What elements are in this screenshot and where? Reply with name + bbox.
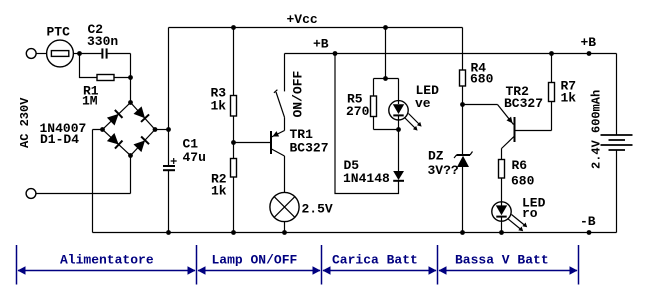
wire TR1 collector to lamp: [284, 156, 286, 192]
resistor R4: [460, 70, 466, 86]
svg-text:ve: ve: [415, 96, 431, 111]
wire R6 to LED ro: [501, 179, 503, 206]
junction bridge top: [128, 100, 133, 105]
svg-text:1M: 1M: [82, 94, 98, 109]
wire LED ro to bottom rail: [501, 218, 503, 233]
svg-text:2.5V: 2.5V: [302, 202, 333, 217]
battery BT1 2.4V: [601, 135, 633, 150]
junction R5/LED bottom: [396, 127, 401, 132]
wire lamp to bottom rail: [284, 222, 286, 233]
wire R7 to +B rail: [551, 54, 553, 83]
svg-text:ro: ro: [522, 206, 538, 221]
junction R3 top on +Vcc: [231, 25, 236, 30]
junction node A: [77, 51, 82, 56]
wire node A down to R1: [80, 54, 98, 78]
svg-text:3V??: 3V??: [428, 163, 459, 178]
svg-text:D1-D4: D1-D4: [40, 132, 79, 147]
svg-text:47u: 47u: [183, 150, 206, 165]
svg-text:+B: +B: [581, 35, 597, 50]
svg-text:1k: 1k: [211, 99, 227, 114]
svg-text:Carica Batt: Carica Batt: [332, 253, 418, 268]
capacitor C1 electrolytic: [163, 158, 177, 170]
section arrow Carica Batt: [323, 266, 437, 275]
resistor R5: [371, 96, 377, 117]
junction +B right: [587, 51, 592, 56]
junction R2 bottom: [231, 230, 236, 235]
svg-text:1k: 1k: [561, 91, 577, 106]
terminal AC input 2: [26, 189, 36, 199]
section arrow Alimentatore: [18, 266, 196, 275]
wire bridge right to C1 line: [155, 129, 169, 131]
wire R4 to zener node: [462, 86, 464, 155]
diode D3 (left to bottom): [107, 133, 123, 149]
wire TR2 base to R7: [515, 102, 552, 131]
junction bridge left: [100, 127, 105, 132]
junction LED ro bottom: [499, 230, 504, 235]
junction TR1 base node: [231, 140, 236, 145]
wire R1 to right node: [114, 77, 131, 79]
wire R5/LED top bar: [374, 78, 399, 80]
wire bridge left to DC minus: [93, 130, 103, 233]
junction -B: [587, 230, 592, 235]
wire C1 vertical upper: [168, 28, 170, 166]
junction DZ bottom: [460, 230, 465, 235]
svg-text:BC327: BC327: [504, 96, 543, 111]
resistor R6: [499, 160, 505, 179]
wire battery bottom: [616, 150, 618, 233]
wire bottom -B rail: [93, 232, 617, 234]
svg-text:ON/OFF: ON/OFF: [291, 70, 306, 117]
diode D1 (left to top): [107, 110, 123, 126]
capacitor C2: [102, 48, 106, 58]
wire node A to C2: [80, 53, 102, 55]
svg-text:BC327: BC327: [290, 141, 329, 156]
svg-text:Bassa V Batt: Bassa V Batt: [455, 253, 549, 268]
wire R2 to bottom rail: [233, 177, 235, 233]
svg-text:+Vcc: +Vcc: [287, 12, 318, 27]
svg-text:270: 270: [346, 104, 370, 119]
junction bridge right: [153, 127, 158, 132]
wire AC2 to bridge bottom: [36, 156, 131, 194]
svg-text:Lamp ON/OFF: Lamp ON/OFF: [212, 253, 298, 268]
wire C2 to right node: [108, 53, 131, 55]
wire right node vertical to bridge top: [130, 54, 132, 103]
wire +Vcc top rail: [169, 27, 463, 29]
switch ON/OFF: [274, 90, 285, 118]
transistor TR1 BC327: [271, 131, 285, 157]
junction C1 bottom: [166, 230, 171, 235]
transistor TR2 BC327: [498, 105, 515, 149]
junction lamp bottom: [282, 230, 287, 235]
wire down to D5: [398, 130, 400, 172]
wire +B corner down to switch: [284, 54, 286, 92]
junction R7 top: [549, 51, 554, 56]
svg-text:680: 680: [470, 72, 494, 87]
diode D4 (bottom to right): [133, 137, 149, 153]
svg-text:R6: R6: [512, 158, 528, 173]
zener diode DZ: [454, 152, 473, 168]
wire TR2 emitter horizontal: [463, 104, 498, 106]
wire R5/LED bottom bar: [374, 129, 399, 131]
terminal AC input 1: [26, 49, 36, 59]
section arrow Lamp ON/OFF: [198, 266, 321, 275]
junction R5 feed on +Vcc: [383, 25, 388, 30]
wire TR1 base: [234, 142, 271, 144]
wire PTC to node A: [73, 53, 79, 55]
wire AC1 to PTC: [36, 53, 46, 55]
resistor R3: [231, 96, 237, 117]
svg-text:-B: -B: [580, 214, 596, 229]
svg-text:+B: +B: [313, 37, 329, 52]
wire feed +Vcc to R5/LED: [385, 28, 387, 79]
wire DZ to bottom rail: [462, 167, 464, 233]
wire R5 branch upper: [373, 79, 375, 97]
wire D5 cathode return to +B: [335, 54, 399, 194]
svg-text:1N4148: 1N4148: [343, 171, 390, 186]
bridge rectifier D1-D4 outline: [103, 103, 156, 156]
junction C1 tap: [166, 127, 171, 132]
wire LED ve branch upper: [398, 79, 400, 105]
wire R3 line: [233, 28, 235, 96]
section divider bars: [17, 245, 579, 285]
diode D5: [393, 171, 404, 181]
wire switch to TR1 emitter: [284, 117, 286, 130]
resistor R1: [97, 75, 114, 81]
wire LED ve branch lower: [398, 116, 400, 130]
svg-text:PTC: PTC: [47, 25, 71, 40]
junction right node B: [128, 75, 133, 80]
junction R5/LED top: [383, 76, 388, 81]
svg-text:AC 230V: AC 230V: [18, 97, 32, 148]
lamp 2.5V: [270, 192, 299, 221]
LED ro: [492, 202, 527, 231]
svg-text:330n: 330n: [87, 34, 118, 49]
svg-text:680: 680: [511, 174, 535, 189]
wire R3 to base node: [233, 116, 235, 159]
wire battery top: [616, 54, 618, 135]
junction bridge bottom: [128, 153, 133, 158]
resistor R7: [549, 83, 555, 102]
wire TR2 collector to R6: [501, 149, 503, 160]
wire +Vcc corner down R4: [462, 28, 464, 71]
svg-text:2.4V 600mAh: 2.4V 600mAh: [590, 90, 604, 169]
svg-text:1k: 1k: [211, 184, 227, 199]
wire C1 vertical lower: [168, 170, 170, 232]
svg-text:Alimentatore: Alimentatore: [60, 253, 154, 268]
junction TR2 emitter node: [460, 102, 465, 107]
PTC thermistor: [47, 40, 74, 67]
svg-text:DZ: DZ: [428, 149, 444, 164]
LED ve: [389, 101, 422, 131]
wire R5 branch lower: [373, 117, 375, 130]
junction +B left: [333, 51, 338, 56]
resistor R2: [231, 159, 237, 178]
section arrow Bassa V Batt: [439, 266, 578, 275]
diode D2 (top to right): [134, 106, 150, 122]
wire +B rail: [285, 53, 617, 55]
